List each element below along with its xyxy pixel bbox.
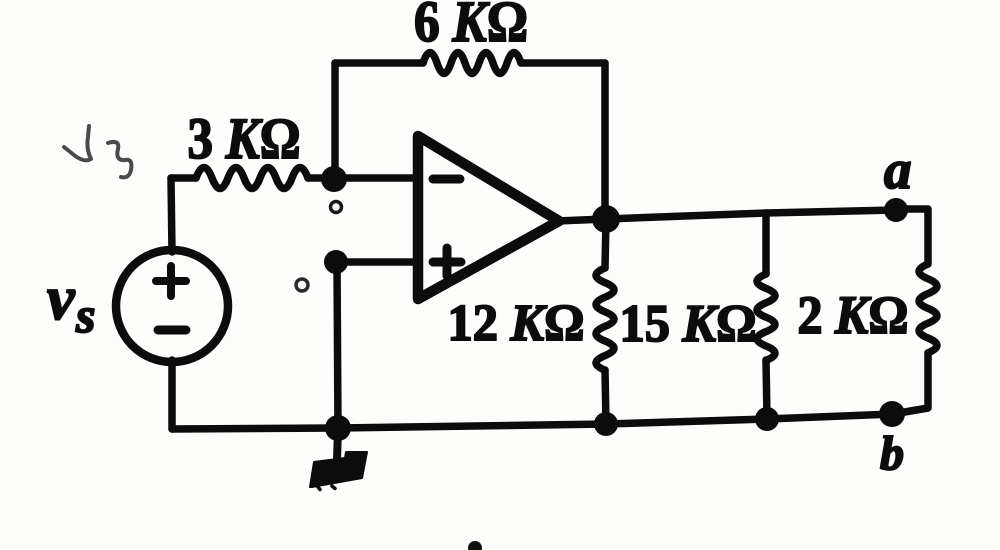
- stray ink dot at bottom edge: [468, 541, 482, 550]
- annotation o left of plus input node: [296, 279, 308, 291]
- wire: plus input vertical: [337, 262, 338, 428]
- voltage source VS: [116, 250, 228, 362]
- handwritten annotation Vs (pencil, top-left): [64, 126, 131, 177]
- op-amp U1: [418, 136, 559, 299]
- wire: node a to top-right corner and down to 2K resistor: [896, 209, 928, 264]
- svg-text:a: a: [884, 139, 912, 200]
- resistor 6 KOhm: [423, 53, 521, 74]
- resistor 3 KOhm: [196, 168, 308, 189]
- node: output junction: [592, 205, 620, 233]
- resistor 15 KOhm: [757, 274, 775, 360]
- wire: feedback right vertical down to output node: [601, 63, 609, 219]
- wire: 12K branch bottom segment: [605, 370, 606, 424]
- svg-text:v: v: [47, 265, 76, 333]
- wire: 12K branch top segment: [605, 219, 606, 268]
- node b: [879, 401, 905, 427]
- svg-text:6 KΩ: 6 KΩ: [414, 0, 528, 54]
- wire: feedback top left segment: [335, 59, 423, 67]
- node: 12K bottom junction: [594, 412, 618, 436]
- wire: inverting node to op-amp minus input: [334, 174, 418, 182]
- wire: feedback top right segment: [521, 59, 605, 67]
- wire: feedback left vertical: [331, 63, 339, 178]
- wire: 15K branch top segment: [762, 213, 770, 274]
- node a: [884, 198, 908, 222]
- svg-text:2 KΩ: 2 KΩ: [798, 285, 909, 345]
- svg-text:3 KΩ: 3 KΩ: [188, 106, 301, 171]
- svg-text:12 KΩ: 12 KΩ: [448, 295, 585, 352]
- node: inverting input junction: [321, 166, 347, 192]
- wire: source top stub up to input wire: [171, 178, 172, 252]
- annotation o below inverting node: [331, 202, 342, 213]
- node: plus input junction: [324, 250, 348, 274]
- svg-text:s: s: [75, 287, 95, 343]
- ground: [310, 428, 367, 490]
- svg-text:15 KΩ: 15 KΩ: [620, 295, 757, 353]
- wire: source bottom stub: [168, 360, 176, 429]
- wire: bottom rail: [172, 414, 892, 429]
- resistor 2 KOhm: [919, 264, 937, 353]
- wire: plus node to op-amp plus input: [336, 258, 418, 266]
- wire: output node to node a: [606, 210, 895, 219]
- node: 15K bottom junction: [755, 407, 779, 431]
- resistor 12 KOhm: [596, 268, 614, 370]
- svg-text:b: b: [880, 427, 904, 480]
- wire: op-amp output to output node: [557, 219, 606, 221]
- wire: 15K branch bottom segment: [766, 360, 767, 419]
- wire: input wire left segment: [171, 174, 196, 182]
- wire: resistor to inverting node: [308, 174, 334, 182]
- node: ground junction: [325, 415, 351, 441]
- wire: 2K resistor bottom to node b: [893, 353, 928, 414]
